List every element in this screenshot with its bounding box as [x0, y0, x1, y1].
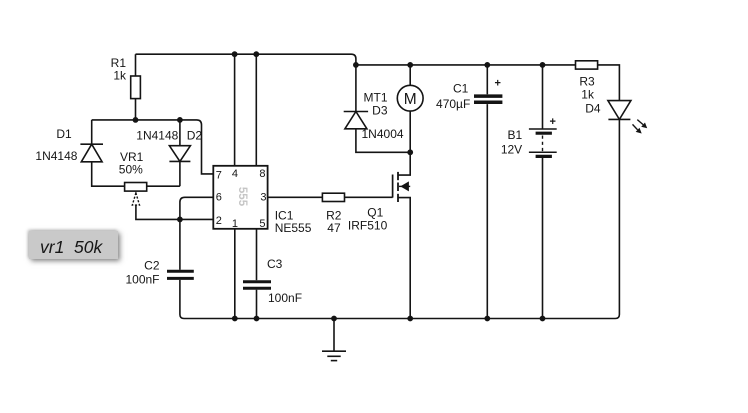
transistor Q1 IRF510 MOSFET — [393, 172, 411, 202]
wire Q1 drain lead — [398, 152, 410, 175]
svg-text:IRF510: IRF510 — [348, 218, 388, 232]
wire R3 to LED top — [598, 65, 620, 101]
junction dot motor top — [407, 62, 413, 68]
svg-text:1k: 1k — [113, 68, 127, 82]
wire top-left horizontal from R1 top to step corner — [136, 54, 356, 65]
wire IC pin 3 to R2 — [268, 196, 323, 198]
junction dot D2 top node — [177, 117, 183, 123]
IC pin number 8 — [259, 168, 265, 180]
svg-text:B1: B1 — [508, 128, 523, 142]
svg-text:D3: D3 — [372, 103, 388, 117]
svg-text:1N4148: 1N4148 — [35, 149, 77, 163]
svg-text:C1: C1 — [453, 82, 469, 96]
diode D2 — [169, 146, 190, 162]
capacitor C1 — [474, 96, 502, 102]
svg-text:D4: D4 — [585, 102, 601, 116]
transistor Q1 labels — [348, 206, 388, 233]
IC pin number 2 — [216, 215, 222, 227]
IC IC1 NE555 labels — [275, 209, 312, 235]
junction dot C1 top — [484, 62, 490, 68]
wire D3 bottom lead to motor bottom node — [356, 129, 410, 153]
wire R1 top lead — [135, 54, 137, 76]
wire ground rail bottom — [184, 120, 619, 319]
wire IC pin 4 to top bus — [234, 54, 236, 166]
junction dot step corner node — [353, 62, 359, 68]
svg-text:555: 555 — [236, 187, 248, 207]
wire C1 bottom lead — [486, 104, 488, 318]
IC pin number 4 — [232, 168, 238, 180]
wire VR1 wiper down and right to node — [136, 205, 180, 219]
junction dot rail C1 — [484, 316, 490, 322]
junction dot top bus at pin4 — [232, 51, 238, 57]
svg-text:470µF: 470µF — [436, 97, 470, 111]
svg-text:+: + — [495, 78, 501, 90]
wire B1 bottom lead — [542, 157, 544, 319]
IC pin number 3 — [260, 191, 266, 203]
capacitor C1 labels — [436, 82, 470, 112]
wire D1 top lead — [91, 120, 93, 144]
svg-text:R3: R3 — [579, 75, 595, 89]
svg-text:12V: 12V — [501, 142, 522, 156]
IC pin number 7 — [216, 169, 222, 181]
wire top-right horizontal bus to R3 — [356, 64, 576, 66]
wire IC pin 6 elbow down to wiper node — [180, 197, 213, 219]
wire D2 top lead — [179, 120, 181, 146]
svg-text:D1: D1 — [56, 127, 72, 141]
wire D3 top lead from top bus — [355, 65, 357, 112]
svg-text:100nF: 100nF — [125, 273, 159, 287]
capacitor C2 labels — [125, 258, 159, 286]
wire Q1 source lead to ground rail — [398, 198, 410, 319]
svg-text:+: + — [550, 116, 556, 128]
IC pin number 6 — [216, 191, 222, 203]
wire IC pin 5 to C3 top — [256, 229, 258, 280]
svg-text:2: 2 — [216, 215, 222, 227]
wire wiper node to IC pin 2 — [180, 218, 213, 220]
IC pin number 1 — [232, 218, 238, 230]
svg-text:50%: 50% — [119, 162, 143, 176]
wire D1 bottom lead to VR1 left — [92, 162, 125, 186]
junction dot B1 top — [540, 62, 546, 68]
IC 555 gray text — [236, 187, 248, 207]
resistor R2 labels — [326, 209, 342, 235]
battery B1 labels — [501, 128, 523, 156]
svg-text:D2: D2 — [187, 129, 203, 143]
wire IC pin 8 to top bus — [255, 54, 257, 166]
svg-text:M: M — [404, 91, 417, 108]
svg-text:47: 47 — [327, 221, 341, 235]
wire motor bottom lead — [409, 111, 411, 152]
svg-text:3: 3 — [260, 191, 266, 203]
capacitor C2 — [167, 271, 194, 278]
ground symbol — [322, 351, 346, 360]
svg-text:8: 8 — [259, 168, 265, 180]
wire B1 top lead — [542, 65, 544, 129]
battery B1 — [529, 129, 557, 156]
svg-text:1N4148: 1N4148 — [136, 129, 178, 143]
wire C1 top lead — [486, 65, 488, 94]
resistor R1 — [131, 76, 141, 99]
junction dot rail Q1 source — [407, 316, 413, 322]
wire VR1 right terminal to D2 — [147, 185, 180, 187]
svg-text:1: 1 — [232, 218, 238, 230]
diode D1 — [80, 144, 103, 162]
junction dot wiper node — [177, 217, 183, 223]
capacitor C1 plus sign — [495, 78, 501, 90]
wire C3 bottom to ground rail — [256, 290, 258, 319]
svg-text:1N4004: 1N4004 — [362, 127, 404, 141]
resistor R3 labels — [579, 75, 600, 116]
junction dot rail ground — [331, 316, 337, 322]
wire ground stem — [333, 319, 335, 351]
LED D4 — [608, 101, 631, 120]
svg-text:4: 4 — [232, 168, 238, 180]
wire motor top lead — [409, 65, 411, 85]
wire node to IC pin 7 — [180, 120, 213, 174]
svg-text:NE555: NE555 — [275, 221, 312, 235]
junction dot top bus at pin8 — [253, 51, 259, 57]
svg-text:C2: C2 — [144, 258, 160, 272]
potentiometer VR1 body — [125, 183, 147, 192]
junction dot rail B1 — [540, 316, 546, 322]
junction dot motor bottom node — [407, 149, 413, 155]
diode D1 labels — [35, 127, 77, 163]
svg-text:5: 5 — [259, 218, 265, 230]
annotation gray label vr1 50k — [29, 231, 118, 259]
svg-text:1k: 1k — [581, 88, 595, 102]
wire R1 bottom lead — [135, 99, 137, 120]
wire node under R1 (D1 to D2) — [92, 119, 180, 121]
junction dot rail pin1 — [232, 316, 238, 322]
wire D2 bottom lead — [179, 161, 181, 186]
diode D2 labels — [136, 129, 202, 143]
diode D3 labels — [362, 91, 404, 141]
svg-text:100nF: 100nF — [268, 291, 302, 305]
wire IC pin 1 to ground rail — [234, 229, 236, 319]
junction dot rail C3 — [254, 316, 260, 322]
wire R2 to Q1 gate — [345, 196, 393, 198]
battery B1 plus sign — [550, 116, 556, 128]
LED D4 light arrows — [633, 120, 648, 134]
svg-text:7: 7 — [216, 169, 222, 181]
potentiometer VR1 labels — [119, 150, 144, 177]
IC pin number 5 — [259, 218, 265, 230]
wire C2 bottom to ground rail corner — [180, 280, 184, 319]
capacitor C3 — [243, 282, 271, 289]
resistor R3 — [576, 61, 598, 69]
IC U1 555 body — [213, 166, 267, 229]
resistor R1 value labels — [111, 56, 127, 82]
svg-text:6: 6 — [216, 191, 222, 203]
svg-text:C3: C3 — [267, 257, 283, 271]
junction dot R1 bottom node — [133, 117, 139, 123]
motor MT1 — [397, 85, 423, 111]
transistor Q1 body-diode arrow — [400, 181, 409, 191]
diode D3 — [344, 112, 368, 129]
wire wiper node down to C2 top — [179, 219, 181, 269]
potentiometer VR1 wiper arrow — [132, 193, 139, 205]
capacitor C3 labels — [267, 257, 302, 305]
resistor R2 — [322, 193, 344, 201]
